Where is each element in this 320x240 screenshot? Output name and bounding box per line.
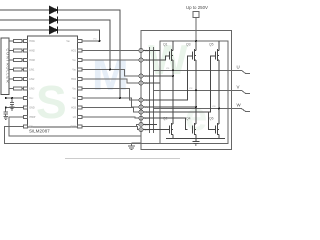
svg-text:Q4: Q4 xyxy=(186,117,191,121)
svg-text:SiLM2087: SiLM2087 xyxy=(29,129,50,134)
svg-text:HIN1: HIN1 xyxy=(29,40,35,43)
svg-text:VS1: VS1 xyxy=(166,68,170,70)
svg-text:VS2: VS2 xyxy=(189,88,193,90)
svg-text:VS1: VS1 xyxy=(72,59,76,62)
svg-text:LIN2: LIN2 xyxy=(29,78,35,81)
svg-text:CONTROLLER: CONTROLLER xyxy=(5,49,9,84)
svg-text:LIN3: LIN3 xyxy=(29,88,35,91)
svg-text:HO1: HO1 xyxy=(71,50,77,53)
svg-text:HO2: HO2 xyxy=(71,78,77,81)
svg-text:LO: LO xyxy=(73,116,76,119)
svg-text:VB1: VB1 xyxy=(66,40,70,43)
svg-text:LIN1: LIN1 xyxy=(29,69,35,72)
svg-text:GND: GND xyxy=(29,107,35,110)
svg-text:VCC: VCC xyxy=(93,39,98,41)
svg-text:W: W xyxy=(237,103,242,108)
svg-text:VB2: VB2 xyxy=(72,69,76,72)
svg-text:Q6: Q6 xyxy=(209,117,214,121)
svg-text:VS2: VS2 xyxy=(72,88,76,91)
svg-text:Q3: Q3 xyxy=(186,43,191,47)
svg-text:VS3: VS3 xyxy=(212,106,216,108)
svg-text:VB3: VB3 xyxy=(72,97,76,100)
svg-text:Q1: Q1 xyxy=(163,43,168,47)
svg-text:Q2: Q2 xyxy=(163,117,168,121)
svg-text:ITRIP: ITRIP xyxy=(29,116,36,119)
svg-text:COM: COM xyxy=(70,126,76,129)
svg-text:HIN2: HIN2 xyxy=(29,50,35,53)
svg-text:HIN3: HIN3 xyxy=(29,59,35,62)
svg-text:HO3: HO3 xyxy=(71,107,77,110)
svg-text:VCC: VCC xyxy=(29,97,34,100)
svg-text:V: V xyxy=(237,85,240,90)
svg-text:U: U xyxy=(237,65,240,70)
svg-text:Q5: Q5 xyxy=(209,43,214,47)
svg-text:Up to 250V: Up to 250V xyxy=(186,5,208,10)
svg-text:S: S xyxy=(36,76,67,128)
